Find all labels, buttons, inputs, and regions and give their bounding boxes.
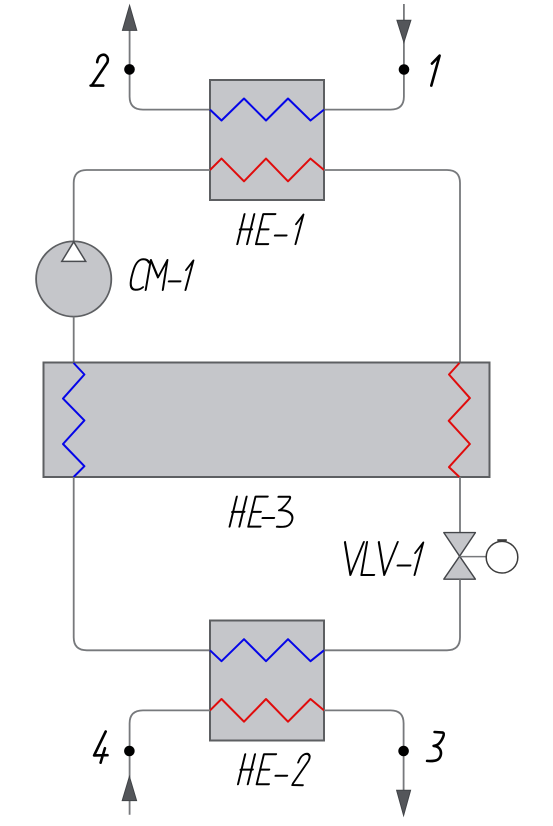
wire stream 4 (from HE-2 red left, elbow, down riser) [130, 710, 210, 814]
wire HE-3 left down, elbow, into HE-2 left blue pass [74, 477, 210, 650]
node dot stream 4 [124, 746, 135, 757]
wire HE-1 red right down to HE-3 [324, 170, 460, 363]
node dot stream 2 [124, 64, 135, 75]
wire stream 2 (vertical riser, elbow, into HE-1 left blue pass) [130, 28, 210, 110]
arrow stream 2 (up) [122, 5, 136, 30]
valve VLV-1 upper triangle [444, 533, 476, 557]
wire CM-1 down to HE-3 [73, 317, 75, 363]
arrow stream 1 (down) [397, 20, 411, 42]
pump CM-1 triangle [62, 242, 86, 262]
heat exchanger HE-1 body [210, 80, 324, 200]
label CM-1 [129, 259, 194, 290]
valve actuator top dash [497, 539, 507, 541]
HE-1 blue coil [210, 99, 324, 121]
label HE-2 [237, 754, 311, 785]
label VLV-1 [337, 542, 423, 575]
label 2 [91, 55, 108, 86]
arrow stream 3 (down) [397, 790, 411, 815]
wire HE-3 right down to valve [459, 477, 461, 533]
label 4 [94, 732, 107, 763]
HE-3 red coil [449, 363, 470, 477]
HE-2 red coil [210, 699, 324, 722]
label 3 [427, 732, 444, 761]
wire valve down, elbow, into HE-2 right blue pass [324, 579, 460, 650]
wire stream 3 (from HE-2 red right, elbow, down riser) [324, 710, 404, 791]
label HE-3 [229, 497, 298, 527]
pump CM-1 body [36, 241, 111, 316]
valve VLV-1 lower triangle [444, 556, 476, 579]
valve actuator head [486, 541, 518, 573]
HE-3 blue coil [63, 363, 84, 477]
HE-2 blue coil [210, 639, 324, 661]
label 1 [431, 56, 439, 86]
valve actuator stem [460, 556, 487, 558]
wire stream 1 (vertical drop, elbow, into HE-1 right blue pass) [324, 4, 404, 110]
arrow stream 4 (up) [122, 777, 136, 801]
node dot stream 3 [398, 746, 409, 757]
heat exchanger HE-3 body [44, 363, 490, 478]
HE-1 red coil [210, 159, 324, 182]
heat exchanger HE-2 body [210, 621, 324, 741]
node dot stream 1 [399, 64, 410, 75]
label HE-1 [236, 214, 303, 244]
wire HE-1 red left to pump CM-1 [74, 170, 210, 242]
